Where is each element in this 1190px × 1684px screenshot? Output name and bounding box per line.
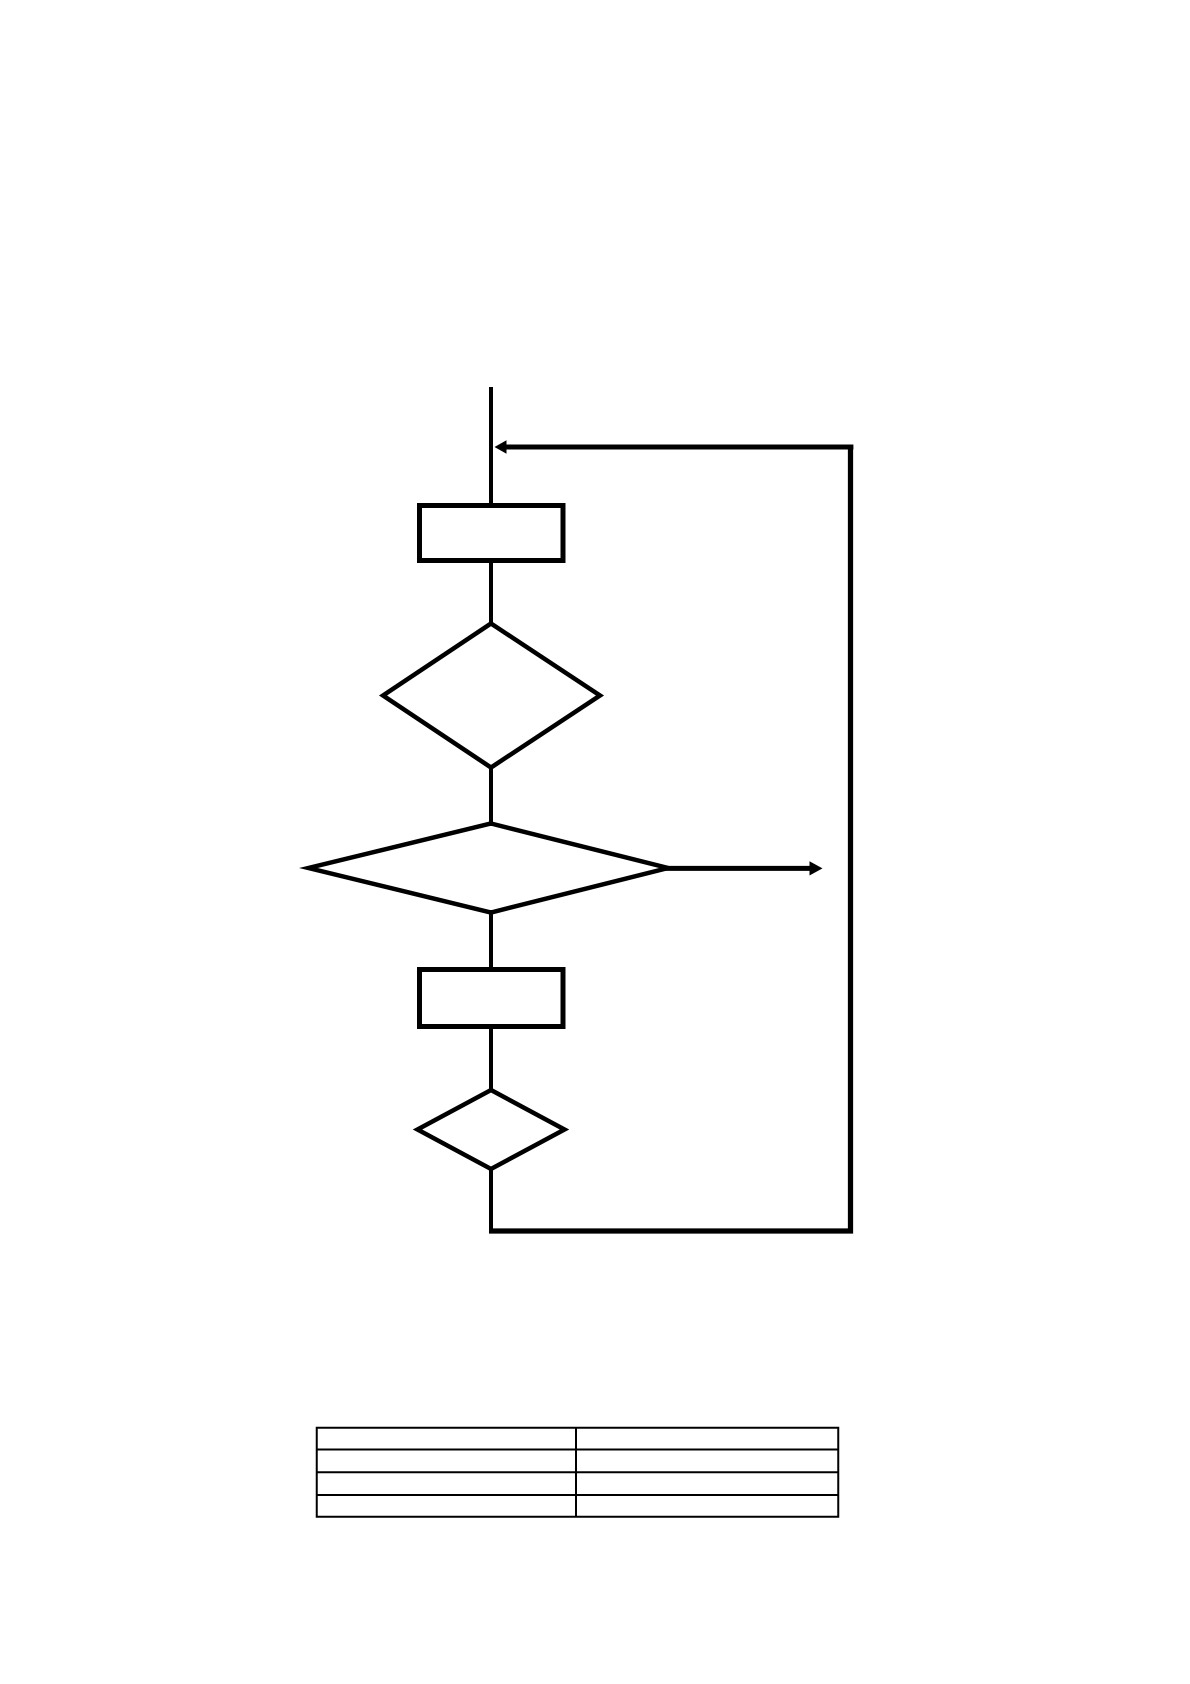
wire: decision 3 down to feedback loop: [489, 1167, 493, 1233]
decision diamond 2 (wide): [309, 824, 669, 913]
wire: process box 1 to decision 1: [489, 560, 493, 626]
wire: feedback loop right and up: [489, 447, 851, 1231]
wire: process box 2 to decision 3: [489, 1026, 493, 1092]
table: 2 columns x 4 rows: [316, 1428, 838, 1517]
decision diamond 3 (small): [418, 1090, 565, 1169]
process box 2: [420, 970, 564, 1027]
process box 1: [420, 506, 564, 561]
wire: decision 1 to decision 2: [489, 766, 493, 826]
wire: decision 2 to process box 2: [489, 910, 493, 971]
wire: exit arrow right from decision 2: [663, 861, 823, 875]
wire: feedback return horizontal with left arrowhead: [495, 440, 854, 454]
decision diamond 1: [383, 624, 600, 768]
wire: entry line from top into process box 1: [489, 387, 493, 506]
